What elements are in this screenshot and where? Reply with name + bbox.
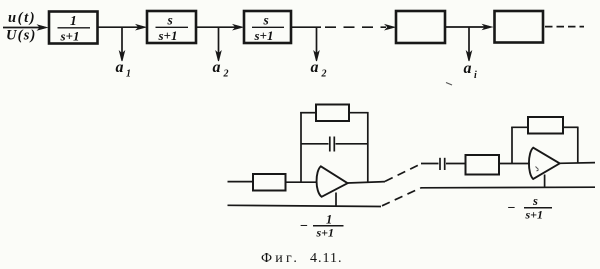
node input label u(t)/U(s)	[6, 10, 37, 44]
svg-text:s+1: s+1	[254, 28, 274, 43]
op-amp U1	[317, 166, 348, 197]
wire dashed after block5	[545, 26, 584, 28]
wire feedback right vertical	[367, 112, 369, 182]
capacitor C1 feedback	[329, 137, 331, 152]
wire tap a3	[316, 27, 318, 53]
caption	[261, 251, 342, 266]
svg-text:1: 1	[70, 13, 77, 28]
wire dashed to block 4	[325, 26, 386, 28]
svg-text:s: s	[167, 13, 173, 28]
svg-text:a: a	[464, 60, 472, 77]
wire into capacitor C2	[421, 163, 439, 165]
block 4 empty	[396, 11, 445, 43]
op-amp U2 inner marks	[536, 167, 539, 172]
wire block1 to block2	[98, 26, 140, 28]
svg-text:i: i	[474, 70, 477, 81]
block 5 empty	[495, 11, 544, 43]
wire bottom rail right	[421, 186, 595, 189]
svg-text:1: 1	[126, 69, 131, 80]
wire block2 to block3	[196, 26, 236, 28]
svg-text:2: 2	[223, 69, 229, 80]
svg-text:s: s	[532, 194, 538, 208]
block s/(s+1) second	[147, 11, 196, 43]
node ai label	[464, 60, 478, 81]
wire U1 output	[348, 182, 385, 183]
block s/(s+1) third	[244, 11, 291, 43]
wire feedback2 left vertical	[511, 127, 513, 164]
wire tap a1	[121, 27, 123, 53]
svg-text:s: s	[263, 13, 269, 28]
wire capacitor branch right	[336, 143, 369, 145]
wire dashed break top	[385, 164, 421, 182]
resistor R3	[466, 155, 500, 175]
wire dashed break bottom	[382, 188, 421, 206]
resistor R4 feedback	[528, 117, 563, 134]
wire block3 solid then tap	[291, 26, 321, 28]
wire feedback2 top-left horizontal	[511, 126, 528, 128]
svg-text:a: a	[311, 59, 319, 76]
svg-text:1: 1	[326, 213, 332, 227]
wire C2 to R3	[446, 163, 465, 165]
wire capacitor branch left	[301, 143, 329, 145]
wire input to R1	[228, 181, 254, 183]
svg-text:−: −	[300, 219, 308, 234]
svg-text:a: a	[213, 59, 221, 76]
wire feedback left vertical	[300, 112, 302, 182]
op-amp U2	[529, 148, 560, 179]
wire U2 output	[560, 162, 595, 165]
node label -1/(s+1)	[300, 213, 334, 240]
svg-text:U(s): U(s)	[6, 27, 37, 43]
svg-text:2: 2	[321, 69, 327, 80]
wire input arrow into block 1	[3, 27, 40, 29]
svg-text:s+1: s+1	[158, 28, 178, 43]
block 1/(s+1)	[49, 12, 98, 44]
svg-text:−: −	[508, 201, 516, 216]
wire tap a2	[218, 27, 220, 53]
wire feedback2 top-right horizontal	[563, 126, 579, 128]
wire bottom rail left	[228, 205, 382, 206]
resistor R1	[253, 174, 286, 191]
wire R1 to op-amp U1	[286, 181, 318, 183]
wire U1 ground stub	[335, 193, 337, 207]
wire U2 ground stub	[544, 175, 546, 188]
node label -s/(s+1)	[508, 194, 544, 222]
svg-text:4.11.: 4.11.	[310, 251, 342, 266]
resistor R2 feedback	[316, 105, 349, 122]
svg-text:s+1: s+1	[525, 208, 544, 222]
scan artifact tick	[446, 83, 452, 86]
wire feedback2 right vertical	[577, 127, 579, 163]
wire block4 to block5	[445, 26, 485, 28]
svg-text:s+1: s+1	[60, 29, 80, 44]
svg-text:Фиг.: Фиг.	[261, 251, 300, 266]
svg-text:a: a	[116, 59, 124, 76]
wire tap ai	[468, 27, 470, 53]
svg-text:s+1: s+1	[316, 226, 335, 240]
capacitor C2 series	[439, 158, 441, 170]
wire feedback top-right horizontal	[349, 112, 369, 114]
node a1 label	[116, 59, 132, 80]
node a2 label	[213, 59, 229, 80]
wire feedback top-left horizontal	[300, 112, 316, 114]
svg-text:u(t): u(t)	[8, 10, 36, 26]
node a3 label	[311, 59, 327, 80]
wire R3 to op-amp U2	[499, 163, 530, 165]
